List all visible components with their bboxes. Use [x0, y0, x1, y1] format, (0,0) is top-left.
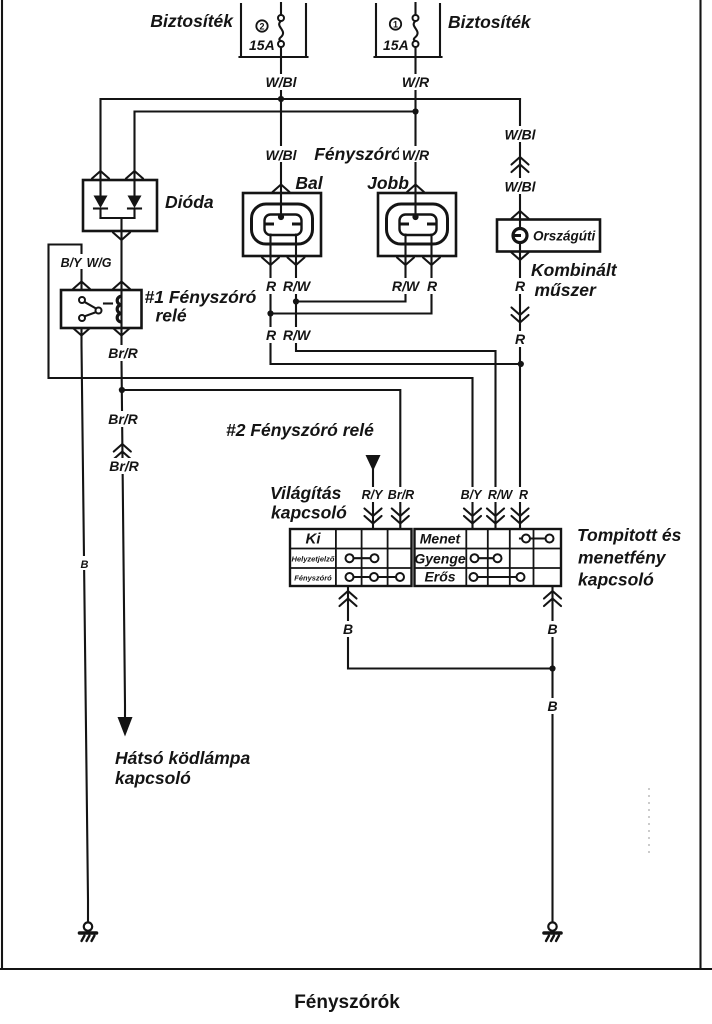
svg-text:B: B [343, 621, 353, 637]
svg-text:R: R [266, 278, 277, 294]
label Kombinalt muszer [531, 260, 618, 300]
svg-text:Tompitott és: Tompitott és [577, 525, 682, 545]
contacts Menet row [520, 535, 554, 543]
fuse F1 box [376, 4, 440, 56]
svg-text:#2 Fényszóró relé: #2 Fényszóró relé [226, 420, 374, 440]
svg-text:kapcsoló: kapcsoló [578, 570, 654, 590]
connector instrument out [512, 253, 529, 261]
label W/R below fuse F1 [399, 74, 433, 90]
svg-text:R/W: R/W [283, 278, 312, 294]
junction W/R on bus 2 [412, 108, 418, 114]
ground right [544, 922, 561, 941]
connector relay pin W/G [113, 282, 130, 290]
svg-text:Biztosíték: Biztosíték [150, 11, 234, 31]
arrow from relay 2 [366, 455, 381, 471]
svg-text:W/Bl: W/Bl [265, 74, 297, 90]
svg-text:Ki: Ki [306, 531, 322, 548]
connector Br/R into switch [392, 509, 409, 524]
label R instrument [513, 278, 527, 294]
relay #1 coil [104, 290, 122, 328]
contacts Helyzetjelzo row [346, 554, 379, 562]
wire Br/R to switch [122, 390, 400, 529]
svg-text:#1 Fényszóró: #1 Fényszóró [145, 287, 257, 307]
svg-text:Fényszórók: Fényszórók [294, 992, 400, 1013]
svg-text:Fényszóró: Fényszóró [294, 574, 332, 583]
label R/W switch [485, 487, 516, 502]
svg-text:kapcsoló: kapcsoló [115, 768, 191, 788]
connector B/Y into switch [464, 509, 481, 524]
svg-text:Jobb: Jobb [367, 173, 409, 193]
label R switch [517, 487, 530, 502]
wire diode join [101, 217, 135, 219]
indicator lamp Orszaguti [513, 229, 527, 243]
label R/W lamp Bal [279, 278, 315, 294]
label B right lower [546, 698, 560, 714]
wire R lamp Jobb [271, 235, 432, 314]
svg-text:Br/R: Br/R [109, 458, 139, 474]
junction R instrument [518, 361, 524, 367]
wire bus 2 [135, 112, 416, 181]
svg-text:R/Y: R/Y [362, 488, 385, 502]
label B/Y switch [458, 487, 484, 502]
svg-text:Dióda: Dióda [165, 192, 214, 212]
lamp Jobb box [378, 193, 456, 256]
lamp Bal bulb [252, 204, 313, 244]
label Br/R 2 [106, 411, 140, 427]
svg-text:Világítás: Világítás [270, 483, 342, 503]
svg-text:kapcsoló: kapcsoló [271, 503, 347, 523]
label R lamp Bal [264, 278, 278, 294]
label B below left table [341, 621, 355, 637]
relay #1 switch contacts [79, 297, 102, 321]
svg-text:Fényszóró: Fényszóró [314, 144, 402, 164]
label #1 Fenyszoro rele [145, 287, 257, 326]
lamp Jobb bulb [387, 204, 448, 244]
connector diode pin 1 [92, 171, 109, 179]
svg-text:Br/R: Br/R [108, 411, 138, 427]
label R/Y [359, 487, 386, 502]
svg-text:W/Bl: W/Bl [504, 179, 536, 195]
wire W/R fuse F1 down [414, 47, 416, 217]
wire B/Y relay to switch [49, 245, 473, 530]
label W/Bl at lamp Bal [262, 146, 300, 163]
svg-text:B: B [81, 559, 89, 571]
svg-text:15A: 15A [383, 37, 409, 53]
connector lamp Bal out R [262, 258, 279, 266]
svg-text:Br/R: Br/R [388, 488, 414, 502]
svg-text:Br/R: Br/R [108, 345, 138, 361]
junction B [549, 665, 555, 671]
connector W/Bl pair [512, 157, 529, 172]
wire R lamp Bal to switch [271, 235, 522, 365]
wire bus 1 W/Bl [101, 99, 521, 180]
diode box [83, 180, 157, 231]
label W/Bl below fuse F2 [262, 74, 300, 90]
svg-text:W/Bl: W/Bl [504, 127, 536, 143]
label B below right table [546, 621, 560, 637]
svg-text:Kombinált: Kombinált [531, 260, 618, 280]
fuse F2 element [278, 3, 284, 47]
svg-text:Helyzetjelző: Helyzetjelző [292, 555, 335, 564]
connector lamp Bal out R/W [288, 258, 305, 266]
svg-text:R/W: R/W [392, 278, 421, 294]
svg-text:R: R [515, 278, 526, 294]
wire W/Bl fuse F2 to lamp Bal [280, 47, 282, 217]
connector relay pin B/Y [73, 282, 90, 290]
label R/W lamp Jobb [388, 278, 424, 294]
connector R pair [512, 308, 529, 323]
wire R/Y from relay 2 [372, 468, 374, 529]
wire W/G diode to relay [120, 218, 122, 290]
connector diode pin 2 [126, 171, 143, 179]
junction Br/R [119, 387, 125, 393]
label Br/R 3 [107, 458, 141, 474]
fuse F2 number 2 [256, 20, 267, 31]
connector R/Y into switch [365, 509, 382, 524]
svg-text:2: 2 [259, 22, 264, 32]
label W/Bl right 2 [501, 178, 539, 195]
svg-text:W/R: W/R [402, 147, 430, 163]
fuse F2 box [241, 4, 306, 56]
connector relay out 2 [113, 328, 130, 336]
ground left [80, 922, 97, 941]
connector B below left table [340, 591, 357, 606]
svg-text:1: 1 [393, 20, 398, 30]
label R/W mid Bal [279, 327, 315, 343]
svg-text:Erős: Erős [424, 569, 455, 585]
svg-text:R: R [515, 331, 526, 347]
label Br/R switch [386, 487, 416, 502]
connector lamp Jobb out R [423, 258, 440, 266]
label Tompitott es menetfeny kapcsolo [577, 525, 682, 590]
junction W/Bl on bus 1 [278, 96, 284, 102]
label B/Y [59, 254, 84, 270]
svg-text:B: B [547, 621, 557, 637]
label W/G [85, 254, 114, 270]
connector diode output [113, 233, 130, 241]
svg-text:műszer: műszer [535, 280, 597, 300]
contacts Eros row [470, 573, 525, 581]
connector R into switch [512, 509, 529, 524]
relay #1 box [61, 290, 142, 328]
fuse F1 number 1 [390, 18, 401, 29]
svg-text:R: R [519, 488, 528, 502]
connector B below right table [544, 591, 561, 606]
switch table Vilagitas kapcsolo [290, 529, 412, 586]
connector lamp Jobb top [407, 185, 424, 193]
switch table Tompitott [415, 529, 562, 586]
label B on left wire [78, 556, 91, 571]
svg-text:W/Bl: W/Bl [265, 147, 297, 163]
label W/R at lamp Jobb [399, 146, 433, 163]
svg-text:Gyenge: Gyenge [414, 551, 466, 567]
connector relay out 1 [73, 328, 90, 336]
svg-text:Országúti: Országúti [533, 229, 596, 244]
svg-text:B: B [547, 698, 557, 714]
connector Br/R pair [114, 444, 131, 459]
connector instrument in [512, 211, 529, 219]
wire B left below switch [348, 586, 553, 669]
svg-text:Hátsó ködlámpa: Hátsó ködlámpa [115, 748, 250, 768]
connector R/W into switch [487, 509, 504, 524]
junction R [267, 310, 273, 316]
contacts Gyenge row [471, 554, 502, 562]
wire B relay to ground [82, 328, 89, 922]
svg-text:relé: relé [156, 306, 187, 326]
connector lamp Jobb out R/W [397, 258, 414, 266]
label Br/R 1 [106, 345, 140, 361]
wire B right to ground [551, 586, 553, 922]
svg-text:B/Y: B/Y [61, 256, 84, 270]
wire Br/R relay down to arrow [122, 328, 126, 719]
wire R/W lamp Jobb [296, 235, 406, 302]
svg-text:15A: 15A [249, 37, 275, 53]
connector lamp Bal top [273, 185, 290, 193]
label Hatso kodlampa kapcsolo [115, 748, 250, 788]
lamp Bal box [243, 193, 321, 256]
svg-text:W/G: W/G [87, 256, 112, 270]
label R lamp Jobb [425, 278, 439, 294]
label R mid right [513, 331, 527, 347]
svg-text:W/R: W/R [402, 74, 430, 90]
diode D1 [94, 180, 108, 218]
junction R/W [293, 298, 299, 304]
label Vilagitas kapcsolo [270, 483, 347, 523]
svg-text:Biztosíték: Biztosíték [448, 12, 532, 32]
svg-text:Bal: Bal [295, 173, 323, 193]
svg-text:menetfény: menetfény [578, 548, 667, 568]
wire R/W lamp Bal to switch [296, 235, 496, 530]
fuse F1 element [413, 3, 419, 47]
svg-text:R: R [266, 327, 277, 343]
wire W/Bl right branch to instrument and switch [519, 99, 521, 529]
svg-text:Menet: Menet [420, 531, 462, 547]
svg-text:R/W: R/W [283, 327, 312, 343]
svg-text:B/Y: B/Y [461, 488, 484, 502]
arrow to Hatso kodlampa [118, 717, 133, 737]
label W/Bl right 1 [501, 126, 539, 143]
contacts Fenyszoro row [346, 573, 405, 581]
diode D2 [128, 180, 142, 218]
svg-text:R/W: R/W [488, 488, 514, 502]
instrument box Orszaguti [497, 220, 600, 252]
label R mid Bal [264, 327, 278, 343]
svg-text:R: R [427, 278, 438, 294]
